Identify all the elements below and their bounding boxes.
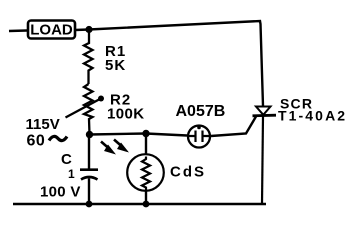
wire: node D down to CdS cell — [145, 134, 147, 156]
node: CdS to rail junction dot — [143, 201, 150, 208]
neon lamp A057B envelope — [188, 126, 210, 148]
node B junction dot below R2 — [86, 131, 93, 138]
capacitor C1 bottom curved plate — [81, 177, 98, 180]
node: C1 to rail junction dot — [86, 201, 93, 208]
load box — [28, 21, 75, 39]
svg-text:115V: 115V — [26, 116, 60, 133]
svg-text:C: C — [61, 151, 72, 168]
wire: AC line stub to LOAD — [9, 29, 27, 32]
photocell CdS element zigzag — [142, 157, 150, 191]
svg-text:1: 1 — [68, 167, 75, 181]
svg-text:T1-40A2: T1-40A2 — [278, 108, 347, 124]
scr anode triangle — [256, 107, 271, 115]
node A junction dot — [85, 26, 92, 33]
capacitor C1 top plate — [80, 168, 98, 171]
svg-text:100 V: 100 V — [40, 184, 81, 201]
node D junction dot (CdS top) — [142, 130, 149, 137]
light arrow 1 — [101, 142, 109, 149]
wire: node D to neon lamp — [146, 134, 187, 136]
wire: node B to node D — [90, 134, 147, 135]
wire: CdS to bottom rail — [145, 191, 147, 205]
neon lamp gas dot — [197, 126, 201, 130]
svg-text:LOAD: LOAD — [30, 22, 73, 39]
scr cathode bar — [253, 114, 277, 117]
light arrow 2 — [114, 140, 122, 147]
wire: neon lamp to SCR gate — [211, 117, 256, 137]
wire: LOAD to node A — [75, 28, 89, 31]
resistor R2 wiper arrow — [66, 100, 100, 118]
svg-text:100K: 100K — [107, 106, 144, 123]
resistor R1 — [84, 30, 93, 85]
photocell CdS circle — [127, 154, 164, 191]
wire: C1 to bottom rail — [88, 179, 90, 205]
svg-text:CdS: CdS — [170, 164, 206, 181]
svg-text:60: 60 — [27, 133, 46, 150]
svg-text:5K: 5K — [105, 57, 126, 74]
wire: node A to top-right corner down to SCR anode — [89, 21, 263, 106]
resistor R2 rheostat zigzag — [84, 84, 93, 135]
wire: bottom rail — [13, 203, 266, 206]
wire: SCR cathode to bottom rail — [262, 116, 263, 204]
neon lamp electrodes — [188, 131, 210, 143]
wire: node B down to capacitor C1 — [88, 135, 90, 170]
svg-text:A057B: A057B — [176, 103, 226, 120]
